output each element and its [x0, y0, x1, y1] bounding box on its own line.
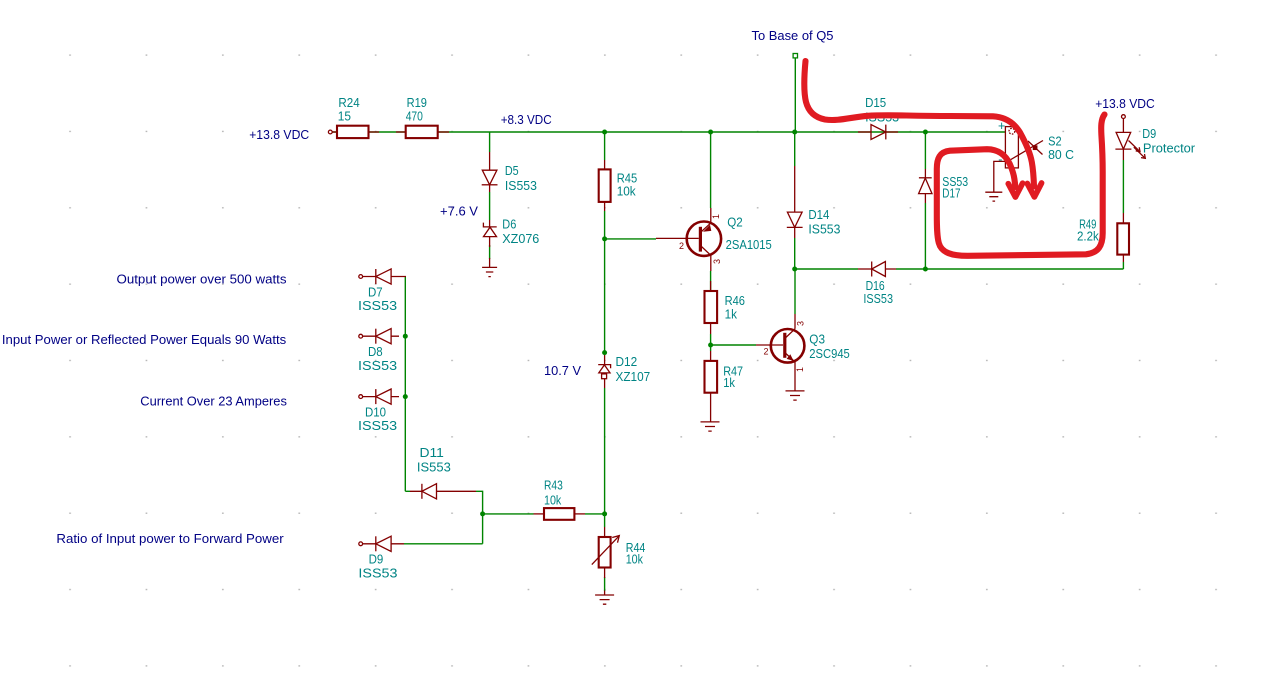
wire from To-Base-of-Q5 square down [794, 58, 796, 132]
label D12 XZ107 [616, 355, 651, 384]
svg-text:R43: R43 [544, 479, 563, 493]
lead D10 row [363, 396, 399, 398]
pin number Q2-1 [711, 214, 721, 219]
svg-text:Current Over 23 Amperes: Current Over 23 Amperes [140, 394, 287, 409]
wire D17 column upper [924, 132, 926, 169]
transistor Q3 2SC945 NPN [771, 329, 805, 363]
svg-text:1k: 1k [725, 308, 738, 322]
node D14-Q3-D16 [792, 267, 797, 272]
WIRES-GREEN [332, 58, 1123, 591]
lead D7 row [363, 276, 406, 278]
lead D5 top [489, 152, 491, 170]
label D17 SS53 [942, 175, 968, 201]
svg-text:Q2: Q2 [727, 215, 743, 229]
svg-text:R24: R24 [338, 96, 359, 110]
node label +13.8 VDC right [1095, 96, 1155, 111]
wire main +8.3V rail y=132 [332, 131, 1005, 133]
lead D9 bottom row [363, 543, 404, 545]
diode D8 [359, 329, 391, 344]
thermal switch S2 [1005, 127, 1043, 168]
lead D5 bottom [489, 185, 491, 192]
svg-text:3: 3 [796, 321, 806, 326]
lead D6 top [489, 220, 491, 227]
node Q2 base [602, 236, 607, 241]
note Current Over 23 Amperes [140, 394, 287, 409]
lead Q3 base pin [756, 344, 783, 346]
label D16 ISS53 [863, 279, 893, 306]
resistor R47 [705, 361, 718, 393]
resistor R49 [1117, 223, 1129, 254]
svg-text:To Base of Q5: To Base of Q5 [752, 28, 834, 43]
pin number Q3-2 [764, 347, 769, 357]
lead Q2 base pin [656, 237, 699, 239]
wire D14 column top [794, 132, 796, 166]
lead R24-R19 [369, 131, 406, 133]
lead R43 left [534, 513, 545, 515]
lead D8 row [363, 335, 399, 337]
svg-text:D9: D9 [369, 553, 384, 567]
node rail-D17 [923, 130, 928, 135]
diode D5 [482, 170, 498, 185]
wire D5-D6 mid [489, 192, 491, 220]
svg-text:XZ107: XZ107 [616, 370, 651, 384]
lead D12 bottom [604, 379, 606, 388]
svg-text:10k: 10k [544, 494, 562, 508]
svg-text:D5: D5 [505, 164, 519, 178]
svg-text:D15: D15 [865, 96, 886, 110]
label D9 bottom ISS53 [358, 553, 397, 581]
lead LED D9 top [1122, 119, 1124, 133]
svg-text:D11: D11 [420, 446, 444, 460]
label D8 ISS53 [358, 345, 397, 373]
lead Q2 collector pin bottom [710, 256, 712, 272]
node label To Base of Q5 [752, 28, 834, 43]
resistor R43 [544, 508, 574, 520]
svg-text:D7: D7 [368, 285, 383, 299]
lead S2 bottom terminal [994, 161, 1006, 192]
label R44 10k [626, 541, 646, 567]
resistor R19 [406, 126, 438, 138]
lead R44 bottom to ground [604, 568, 606, 596]
diode D11 [422, 484, 437, 499]
svg-text:ISS53: ISS53 [863, 292, 893, 306]
pin number Q2-2 [679, 241, 684, 251]
wire R43 to R44 node [585, 513, 605, 515]
LEADS-RED [332, 119, 1123, 596]
svg-text:10k: 10k [617, 185, 637, 199]
node rail-R45 [602, 130, 607, 135]
wire Q2 collector column top [710, 132, 712, 208]
label D10 ISS53 [358, 405, 397, 433]
svg-text:Input Power or Reflected Power: Input Power or Reflected Power Equals 90… [2, 332, 287, 347]
svg-text:D8: D8 [368, 345, 383, 359]
svg-text:2.2k: 2.2k [1077, 230, 1099, 244]
wire R45 column top [604, 132, 606, 160]
wire left diode rail x=405.3 [404, 277, 406, 492]
lead R46 top [710, 281, 712, 291]
resistor R45 [599, 169, 611, 202]
note Ratio of Input power to Forward Power [56, 531, 284, 546]
svg-text:15: 15 [338, 110, 351, 124]
ground under D6 [482, 267, 497, 276]
label D15 ISS53 [865, 96, 899, 125]
svg-text:2: 2 [764, 347, 769, 357]
svg-text:+13.8 VDC: +13.8 VDC [1095, 96, 1155, 111]
ground under R47 [701, 422, 720, 431]
lead D17 bottom [924, 194, 926, 203]
marker stroke A from To-Base wire to right arrow [804, 61, 1034, 187]
wire Q2 base horizontal [605, 238, 656, 240]
svg-text:1k: 1k [723, 376, 735, 390]
wire rail corner to D11 [405, 490, 410, 492]
lead D11 row [410, 490, 476, 492]
lead D15 left [858, 131, 871, 133]
lead D6 bottom [489, 237, 491, 268]
svg-text:D14: D14 [808, 208, 829, 222]
svg-text:1: 1 [795, 367, 805, 372]
lead Q3 collector pin [794, 314, 796, 329]
label R49 2.2k [1077, 218, 1099, 244]
variable resistor R44 [592, 536, 620, 568]
lead R45 top [604, 160, 606, 169]
label D6 XZ076 [502, 218, 539, 247]
diode D9 bottom [359, 536, 391, 551]
lead R45 bottom [604, 202, 606, 211]
lead D14 top [794, 166, 796, 212]
label S2 plus terminal [998, 119, 1005, 133]
pin number Q3-3 [796, 321, 806, 326]
lead R49 bottom [1122, 255, 1124, 262]
lead D16 right [885, 268, 896, 270]
label D7 ISS53 [358, 285, 397, 313]
svg-text:Ratio of Input power to Forwar: Ratio of Input power to Forward Power [56, 531, 284, 546]
svg-text:R46: R46 [725, 294, 745, 308]
pin number Q3-1 [795, 367, 805, 372]
svg-text:R45: R45 [617, 171, 638, 185]
marker arrowhead A [1027, 183, 1041, 197]
label D9 Protector [1142, 127, 1195, 155]
lead R19 right [438, 131, 449, 133]
label Q2 2SA1015 [726, 215, 772, 252]
wire node to R43 [483, 513, 534, 515]
ground under S2 [985, 192, 1002, 201]
svg-text:D17: D17 [942, 187, 960, 201]
lead D17 top [924, 169, 926, 178]
wire rail y=269 right part [896, 268, 1123, 270]
node label 10.7 V [544, 363, 581, 378]
wire Q3 collector up [794, 269, 796, 314]
wire R49 column lower [1122, 262, 1124, 269]
label R19 value 470 [406, 96, 427, 124]
wire LED D9 to R49 [1122, 160, 1124, 213]
svg-text:D9: D9 [1142, 127, 1156, 141]
pin number Q2-3 [712, 259, 722, 264]
lead D14 bottom [794, 227, 796, 238]
svg-text:ISS53: ISS53 [358, 359, 397, 373]
svg-text:IS553: IS553 [505, 179, 537, 193]
pin square To Base of Q5 [793, 54, 797, 58]
wire R44 bottom mid [604, 577, 606, 591]
wire R45 bottom to base node [604, 211, 606, 353]
resistor R46 [705, 291, 718, 323]
svg-text:80 C: 80 C [1048, 148, 1074, 162]
ground under R44 [595, 595, 614, 604]
LED D9 Protector [1115, 132, 1145, 158]
svg-text:Q3: Q3 [809, 333, 825, 347]
svg-text:+8.3 VDC: +8.3 VDC [501, 112, 552, 127]
diode D17 [919, 178, 932, 194]
lead R24 left pin [332, 131, 337, 133]
svg-text:R19: R19 [407, 96, 427, 110]
svg-text:470: 470 [406, 110, 423, 124]
wire D9 row to corner [404, 543, 483, 545]
node D10 [403, 394, 408, 399]
wire rail y=269 left part [795, 268, 858, 270]
svg-text:10.7 V: 10.7 V [544, 363, 581, 378]
diode D10 [359, 389, 391, 404]
wire D17 column lower [924, 203, 926, 269]
node D11-D9 corner [480, 511, 485, 516]
wire D12 bottom long [604, 388, 606, 527]
node label +13.8 VDC left [249, 127, 309, 142]
ground under Q3 emitter [786, 391, 805, 400]
label R46 1k [725, 294, 745, 322]
svg-text:2: 2 [679, 241, 684, 251]
node R43-R44-D12 [602, 511, 607, 516]
lead Q3 emitter to ground [794, 362, 796, 391]
node R46-R47-Q3 [708, 343, 713, 348]
label R47 1k [723, 364, 743, 390]
lead D16 left [858, 268, 872, 270]
node rail-D14 [792, 130, 797, 135]
lead R49 top [1122, 213, 1124, 223]
wire D5 column upper [489, 132, 491, 152]
label D14 IS553 [808, 208, 840, 236]
svg-text:Output power over 500 watts: Output power over 500 watts [117, 271, 288, 286]
label R43 10k [544, 479, 563, 508]
wire Q3 base horizontal [710, 344, 756, 346]
label Q3 2SC945 [809, 333, 850, 362]
diode D7 [359, 269, 391, 284]
label S2 80 C [1048, 134, 1074, 162]
node D12 top [602, 350, 607, 355]
lead R46 bottom [710, 323, 712, 334]
svg-text:3: 3 [712, 259, 722, 264]
note Output power over 500 watts [117, 271, 288, 286]
wire R46 to R47 node [710, 334, 712, 351]
svg-text:10k: 10k [626, 553, 644, 567]
svg-text:2SC945: 2SC945 [809, 347, 850, 361]
svg-text:+7.6 V: +7.6 V [440, 204, 478, 219]
transistor Q2 2SA1015 PNP [687, 222, 721, 256]
zener diode D12 [598, 365, 610, 379]
diode D16 [872, 262, 886, 277]
lead D15 right [886, 131, 898, 133]
svg-text:D12: D12 [616, 355, 638, 369]
wire D6 to ground [489, 245, 491, 259]
lead R47 top [710, 351, 712, 361]
lead R43 right [574, 513, 585, 515]
label R45 10k [617, 171, 638, 198]
wire D14 bottom to rail [794, 238, 796, 269]
lead R44 top [604, 527, 606, 537]
marker stroke B loop [937, 115, 1105, 256]
resistor R24 [337, 126, 369, 138]
RED-MARKER [804, 61, 1104, 256]
lead Q2 emitter pin top [710, 208, 712, 223]
node D17-rail269 [923, 267, 928, 272]
svg-text:2SA1015: 2SA1015 [726, 238, 772, 252]
svg-text:D16: D16 [866, 279, 885, 293]
diode D14 [787, 212, 803, 227]
svg-text:IS553: IS553 [808, 222, 840, 236]
wire D11 to corner [476, 491, 483, 544]
JUNCTIONS [403, 130, 928, 517]
svg-text:IS553: IS553 [417, 461, 451, 475]
svg-text:D10: D10 [365, 405, 386, 419]
node label +8.3 VDC [501, 112, 552, 127]
svg-text:XZ076: XZ076 [502, 232, 539, 246]
label D11 IS553 [417, 446, 451, 475]
lead R47 bottom to ground [710, 393, 712, 422]
pin circle +13.8 VDC right [1122, 115, 1126, 119]
svg-text:ISS53: ISS53 [358, 419, 397, 433]
svg-text:D6: D6 [502, 218, 516, 232]
svg-text:S2: S2 [1048, 134, 1062, 148]
svg-text:1: 1 [711, 214, 721, 219]
svg-text:+13.8 VDC: +13.8 VDC [249, 127, 309, 142]
node rail-Q2 [708, 130, 713, 135]
label S2 minus terminal [998, 153, 1002, 167]
label R24 value 15 [338, 96, 360, 124]
label D5 IS553 [505, 164, 537, 193]
lead D12 top [604, 353, 606, 365]
zener diode D6 [483, 223, 496, 237]
pin circle +13.8 VDC left [328, 130, 332, 134]
diode D15 [871, 125, 886, 140]
svg-text:ISS53: ISS53 [358, 566, 397, 580]
node D8 [403, 334, 408, 339]
wire Q2 emitter to R46 [710, 271, 712, 291]
marker arrowhead B [1008, 183, 1022, 197]
svg-text:ISS53: ISS53 [358, 299, 397, 313]
node label +7.6 V [440, 204, 478, 219]
note Input Power or Reflected Power Equals 90 Watts [2, 332, 287, 347]
lead LED D9 bottom [1122, 149, 1124, 160]
svg-text:Protector: Protector [1143, 141, 1195, 155]
